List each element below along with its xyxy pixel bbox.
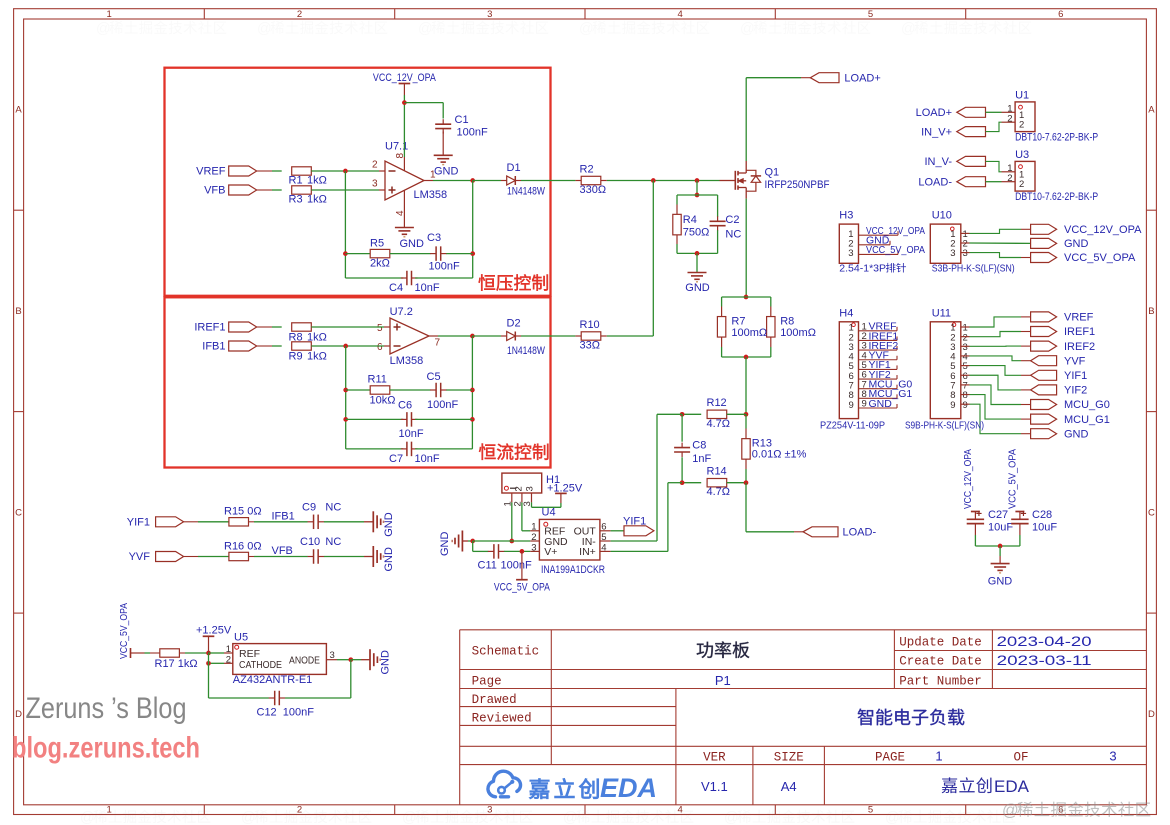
svg-text:IREF2: IREF2	[1064, 341, 1095, 353]
svg-text:33Ω: 33Ω	[580, 340, 600, 352]
svg-text:D1: D1	[507, 162, 521, 174]
svg-text:PAGE: PAGE	[875, 750, 905, 764]
svg-text:C11: C11	[478, 560, 497, 572]
svg-text:1: 1	[107, 805, 112, 816]
svg-text:GND: GND	[988, 575, 1013, 587]
svg-text:Q1: Q1	[765, 167, 780, 179]
svg-text:C8: C8	[692, 439, 706, 451]
svg-text:@: @	[402, 810, 417, 825]
svg-text:2: 2	[1019, 179, 1024, 190]
svg-text:5: 5	[868, 805, 873, 816]
svg-text:1N4148W: 1N4148W	[507, 185, 545, 197]
svg-text:R9: R9	[289, 351, 303, 363]
svg-text:LM358: LM358	[414, 189, 448, 201]
svg-text:VFB: VFB	[204, 185, 225, 197]
svg-text:U4: U4	[542, 506, 556, 518]
svg-text:R5: R5	[370, 237, 384, 249]
svg-text:GND: GND	[439, 532, 451, 557]
svg-text:VCC_12V_OPA: VCC_12V_OPA	[373, 72, 437, 84]
svg-text:MCU_G1: MCU_G1	[1064, 414, 1110, 426]
svg-text:D: D	[15, 709, 22, 720]
svg-text:2: 2	[1007, 113, 1012, 124]
svg-text:2: 2	[1019, 120, 1024, 131]
svg-text:IFB1: IFB1	[202, 341, 225, 353]
svg-text:100nF: 100nF	[429, 261, 460, 273]
svg-text:B: B	[1148, 306, 1154, 317]
svg-text:LM358: LM358	[390, 355, 424, 367]
svg-text:100mΩ: 100mΩ	[780, 327, 816, 339]
svg-text:5: 5	[377, 323, 383, 334]
svg-text:C10: C10	[300, 536, 320, 548]
svg-text:C9: C9	[302, 501, 316, 513]
svg-text:C5: C5	[427, 371, 441, 383]
svg-text:10nF: 10nF	[415, 453, 440, 465]
svg-text:10kΩ: 10kΩ	[370, 394, 396, 406]
svg-text:IREF1: IREF1	[1064, 326, 1095, 338]
svg-text:LOAD-: LOAD-	[918, 176, 952, 188]
svg-text:4: 4	[678, 9, 683, 20]
svg-text:100nF: 100nF	[427, 399, 458, 411]
svg-text:IN_V-: IN_V-	[924, 156, 952, 168]
svg-text:C27: C27	[988, 509, 1008, 521]
svg-text:C7: C7	[389, 453, 403, 465]
svg-text:Reviewed: Reviewed	[472, 711, 532, 725]
svg-text:C12 100nF: C12 100nF	[257, 707, 315, 719]
svg-text:100mΩ: 100mΩ	[731, 327, 767, 339]
svg-text:GND: GND	[380, 650, 392, 675]
svg-text:3: 3	[525, 486, 536, 491]
svg-text:C1: C1	[455, 114, 469, 126]
svg-text:GND: GND	[869, 398, 893, 410]
svg-text:9: 9	[849, 400, 854, 411]
svg-text:YIF1: YIF1	[623, 515, 646, 527]
svg-text:1kΩ: 1kΩ	[307, 351, 327, 363]
svg-text:10nF: 10nF	[415, 282, 440, 294]
svg-text:R17 1kΩ: R17 1kΩ	[155, 658, 198, 670]
svg-text:5: 5	[868, 9, 873, 20]
svg-text:GND: GND	[400, 238, 425, 250]
svg-text:2.54-1*3P: 2.54-1*3P	[839, 263, 886, 275]
svg-text:Drawed: Drawed	[472, 693, 517, 707]
svg-text:@: @	[96, 21, 111, 37]
svg-text:330Ω: 330Ω	[580, 184, 607, 196]
svg-text:PZ254V-11-09P: PZ254V-11-09P	[820, 420, 885, 432]
svg-text:R16 0Ω: R16 0Ω	[224, 540, 262, 552]
svg-text:1kΩ: 1kΩ	[307, 194, 327, 206]
svg-text:@: @	[740, 21, 755, 37]
svg-text:U3: U3	[1015, 149, 1029, 161]
svg-text:D2: D2	[507, 318, 521, 330]
svg-text:VCC_5V_OPA: VCC_5V_OPA	[118, 603, 130, 659]
svg-text:U10: U10	[932, 210, 952, 222]
svg-text:OF: OF	[1013, 750, 1028, 764]
svg-text:+: +	[976, 508, 982, 520]
svg-text:750Ω: 750Ω	[683, 227, 710, 239]
svg-text:4.7Ω: 4.7Ω	[707, 418, 731, 430]
svg-text:GND: GND	[685, 282, 710, 294]
svg-text:NC: NC	[725, 228, 741, 240]
svg-text:S3B-PH-K-S(LF)(SN): S3B-PH-K-S(LF)(SN)	[932, 263, 1015, 275]
svg-text:GND: GND	[383, 547, 395, 572]
svg-text:@: @	[418, 21, 433, 37]
svg-text:IREF1: IREF1	[194, 322, 225, 334]
svg-text:R15 0Ω: R15 0Ω	[224, 506, 262, 518]
svg-text:C: C	[1148, 508, 1155, 519]
svg-text:2: 2	[372, 160, 378, 171]
svg-text:Schematic: Schematic	[472, 645, 540, 659]
svg-text:2023-03-11: 2023-03-11	[997, 653, 1092, 668]
svg-text:@: @	[885, 810, 900, 825]
svg-text:10uF: 10uF	[988, 521, 1013, 533]
svg-text:VCC_12V_OPA: VCC_12V_OPA	[1064, 224, 1142, 236]
svg-text:VCC_12V_OPA: VCC_12V_OPA	[962, 449, 974, 509]
svg-text:3: 3	[963, 248, 968, 259]
svg-text:C: C	[15, 508, 22, 519]
svg-text:10uF: 10uF	[1032, 521, 1057, 533]
svg-text:Zeruns ’s Blog: Zeruns ’s Blog	[26, 692, 187, 725]
svg-text:LOAD+: LOAD+	[916, 107, 952, 119]
svg-text:IFB1: IFB1	[272, 510, 295, 522]
svg-text:V1.1: V1.1	[701, 779, 728, 794]
svg-text:2: 2	[1007, 173, 1012, 184]
svg-text:AZ432ANTR-E1: AZ432ANTR-E1	[233, 674, 312, 686]
svg-text:VREF: VREF	[196, 166, 226, 178]
svg-text:R3: R3	[289, 194, 303, 206]
svg-text:VFB: VFB	[272, 545, 293, 557]
svg-text:2: 2	[514, 486, 525, 491]
svg-text:R2: R2	[580, 163, 594, 175]
svg-text:@: @	[80, 810, 95, 825]
svg-text:A: A	[1148, 105, 1155, 116]
svg-text:3: 3	[1109, 748, 1116, 763]
svg-text:U1: U1	[1015, 90, 1029, 102]
svg-text:Page: Page	[472, 674, 502, 688]
svg-text:VCC_5V_OPA: VCC_5V_OPA	[1006, 449, 1018, 509]
svg-text:YIF1: YIF1	[127, 516, 150, 528]
svg-text:SIZE: SIZE	[774, 750, 804, 764]
svg-text:@: @	[901, 21, 916, 37]
svg-text:Update Date: Update Date	[899, 635, 982, 649]
svg-text:4.7Ω: 4.7Ω	[707, 486, 731, 498]
svg-text:10nF: 10nF	[399, 428, 424, 440]
svg-text:DBT10-7.62-2P-BK-P: DBT10-7.62-2P-BK-P	[1015, 131, 1098, 143]
svg-text:9: 9	[963, 400, 968, 411]
svg-text:1: 1	[107, 9, 112, 20]
svg-text:H4: H4	[839, 307, 853, 319]
svg-text:0.01Ω ±1%: 0.01Ω ±1%	[752, 449, 807, 461]
svg-text:3: 3	[950, 248, 955, 259]
svg-text:2023-04-20: 2023-04-20	[997, 634, 1092, 649]
svg-text:2: 2	[297, 9, 302, 20]
svg-text:R12: R12	[707, 397, 727, 409]
svg-text:ANODE: ANODE	[289, 655, 320, 666]
svg-text:YVF: YVF	[1064, 355, 1086, 367]
svg-text:DBT10-7.62-2P-BK-P: DBT10-7.62-2P-BK-P	[1015, 191, 1098, 203]
svg-text:6: 6	[1058, 9, 1063, 20]
svg-text:P1: P1	[715, 673, 731, 688]
svg-text:U5: U5	[234, 631, 248, 643]
svg-text:LOAD+: LOAD+	[844, 72, 880, 84]
svg-text:D: D	[1148, 709, 1155, 720]
svg-text:B: B	[15, 306, 21, 317]
svg-text:GND: GND	[1064, 238, 1089, 250]
svg-text:VCC_5V_OPA: VCC_5V_OPA	[866, 244, 925, 256]
svg-text:1: 1	[935, 748, 942, 763]
svg-text:Create Date: Create Date	[899, 654, 982, 668]
svg-text:C28: C28	[1032, 509, 1052, 521]
svg-text:R1: R1	[289, 174, 303, 186]
svg-text:C6: C6	[398, 399, 412, 411]
svg-text:9: 9	[950, 400, 955, 411]
svg-text:3: 3	[372, 179, 378, 190]
svg-text:1nF: 1nF	[692, 453, 711, 465]
svg-text:@: @	[241, 810, 256, 825]
svg-text:@: @	[563, 810, 578, 825]
svg-text:NC: NC	[325, 501, 341, 513]
svg-text:+1.25V: +1.25V	[196, 625, 232, 637]
svg-text:LOAD-: LOAD-	[843, 526, 877, 538]
svg-text:+: +	[1020, 508, 1026, 520]
svg-text:100nF: 100nF	[457, 126, 488, 138]
svg-text:R14: R14	[707, 466, 727, 478]
svg-text:R10: R10	[580, 319, 600, 331]
svg-text:A: A	[15, 105, 22, 116]
svg-text:Part Number: Part Number	[899, 674, 982, 688]
svg-text:EDA: EDA	[994, 777, 1030, 796]
svg-text:blog.zeruns.tech: blog.zeruns.tech	[12, 732, 200, 765]
svg-text:@: @	[579, 21, 594, 37]
svg-text:EDA: EDA	[600, 773, 657, 803]
svg-text:+1.25V: +1.25V	[547, 482, 583, 494]
svg-text:GND: GND	[1064, 428, 1089, 440]
svg-text:C4: C4	[389, 282, 403, 294]
svg-text:R4: R4	[683, 214, 697, 226]
svg-text:INA199A1DCKR: INA199A1DCKR	[541, 564, 605, 576]
svg-text:U7.2: U7.2	[390, 306, 413, 318]
svg-text:R8: R8	[780, 316, 794, 328]
svg-text:VREF: VREF	[1064, 312, 1094, 324]
svg-text:100nF: 100nF	[501, 560, 532, 572]
svg-text:3: 3	[487, 9, 492, 20]
svg-text:YIF2: YIF2	[1064, 385, 1087, 397]
svg-text:GND: GND	[383, 512, 395, 537]
svg-text:1N4148W: 1N4148W	[507, 345, 545, 357]
svg-text:VCC_5V_OPA: VCC_5V_OPA	[494, 581, 551, 593]
svg-text:2kΩ: 2kΩ	[370, 257, 390, 269]
svg-text:C2: C2	[725, 214, 739, 226]
svg-text:NC: NC	[325, 536, 341, 548]
svg-text:R11: R11	[368, 373, 387, 385]
svg-text:6: 6	[377, 342, 383, 353]
svg-text:3: 3	[848, 248, 853, 259]
svg-text:GND: GND	[434, 165, 459, 177]
svg-text:@: @	[724, 810, 739, 825]
svg-text:U11: U11	[932, 307, 951, 319]
svg-text:R7: R7	[731, 316, 745, 328]
svg-text:IN+: IN+	[579, 546, 596, 558]
svg-text:C3: C3	[427, 232, 441, 244]
svg-text:VCC_5V_OPA: VCC_5V_OPA	[1064, 252, 1136, 264]
svg-text:VER: VER	[703, 750, 726, 764]
svg-text:@: @	[257, 21, 272, 37]
svg-text:7: 7	[435, 337, 441, 348]
svg-text:CATHODE: CATHODE	[239, 659, 282, 671]
svg-text:IRFP250NPBF: IRFP250NPBF	[765, 179, 830, 191]
svg-text:1kΩ: 1kΩ	[307, 174, 327, 186]
svg-text:V+: V+	[544, 546, 557, 558]
svg-text:A4: A4	[781, 779, 797, 794]
svg-text:YVF: YVF	[129, 551, 151, 563]
svg-text:MCU_G0: MCU_G0	[1064, 399, 1110, 411]
svg-text:YIF1: YIF1	[1064, 370, 1087, 382]
svg-text:S9B-PH-K-S(LF)(SN): S9B-PH-K-S(LF)(SN)	[905, 420, 984, 432]
svg-text:H3: H3	[839, 210, 853, 222]
svg-text:IN_V+: IN_V+	[921, 126, 952, 138]
